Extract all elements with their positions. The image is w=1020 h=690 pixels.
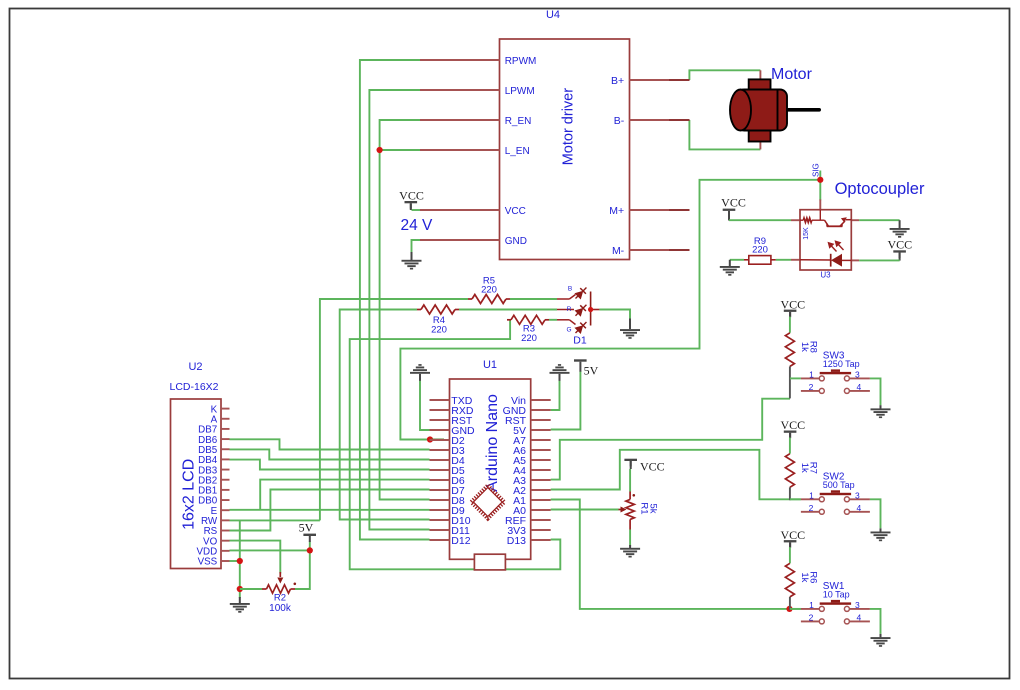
svg-text:VCC: VCC (780, 528, 805, 542)
node SIG junction (817, 177, 823, 183)
LED D1 red element (557, 309, 574, 311)
svg-text:Arduino Nano: Arduino Nano (484, 394, 501, 492)
switch SW1 body (820, 602, 851, 604)
wire GNDleft-ground (420, 380, 430, 430)
svg-text:16x2 LCD: 16x2 LCD (181, 459, 198, 530)
wire VCC24-pin (412, 209, 421, 211)
node D2 junction (427, 436, 433, 442)
U4 pin VCC (420, 209, 500, 211)
U1 pin A0 (531, 509, 551, 511)
wire pin3-ground SW2 (870, 499, 881, 528)
svg-text:3: 3 (855, 370, 860, 380)
U2 pin DB0 (221, 499, 230, 501)
wire R3 right to LED G (549, 319, 557, 321)
wire VDD-5V (230, 549, 310, 551)
switch SW2 pin3 (849, 498, 870, 500)
svg-text:D1: D1 (573, 335, 587, 347)
wire R2 left lead (240, 588, 262, 590)
U2 pin RW (221, 519, 230, 521)
resistor R8 (785, 333, 794, 367)
U1 pin D7 (430, 489, 450, 491)
svg-text:3: 3 (855, 600, 860, 610)
wire VCC-R1 (629, 469, 631, 492)
wire opto bottom right to VCC (859, 259, 900, 261)
wire LPWM-D11 (369, 90, 429, 530)
U4 pin LPWM (420, 89, 500, 91)
U4 pin GND (420, 239, 500, 241)
U1 pin A1 (531, 499, 551, 501)
wire VSS tap (230, 560, 240, 562)
U2 pin DB5 (221, 448, 230, 450)
svg-text:5V: 5V (584, 364, 599, 378)
wire R7-switch column (789, 487, 791, 500)
svg-text:U4: U4 (546, 9, 560, 21)
U4 pin B- (630, 119, 690, 121)
svg-text:220: 220 (481, 285, 497, 296)
U1 pin 3V3 (531, 529, 551, 531)
svg-text:VCC: VCC (505, 206, 526, 217)
svg-text:D13: D13 (507, 535, 526, 547)
motor M1 (730, 79, 821, 141)
svg-text:2: 2 (809, 503, 814, 513)
switch SW3 pin3 (849, 377, 870, 379)
svg-text:LCD-16X2: LCD-16X2 (170, 381, 219, 393)
U1 pin D5 (430, 469, 450, 471)
svg-text:B-: B- (614, 115, 625, 127)
wire 5Vpin-symbol (551, 371, 581, 430)
svg-text:B+: B+ (611, 75, 624, 87)
node R2 left junction (237, 586, 243, 592)
U2 pin DB4 (221, 458, 230, 460)
wire REN-D8 (380, 120, 430, 500)
U1 pin A3 (531, 479, 551, 481)
U1 pin 5V (531, 429, 551, 431)
svg-text:220: 220 (752, 245, 768, 256)
wire RPWM-D12 (360, 60, 430, 540)
svg-text:R_EN: R_EN (505, 116, 532, 127)
U3 pin stub right top (851, 219, 859, 221)
U2 pin E (221, 509, 230, 511)
wire D2 olive overlap (432, 439, 445, 441)
U2 pin VSS (221, 560, 230, 562)
U3 pin stub right bottom (851, 259, 859, 261)
wire pin3-ground SW3 (870, 378, 881, 405)
wire column-pin1 SW1 (790, 608, 801, 610)
switch SW1 pin4 (849, 620, 870, 622)
U3 pin stub left bottom (791, 259, 800, 261)
U3 pin stub left (791, 219, 800, 221)
resistor R3 (507, 319, 511, 321)
svg-text:5k: 5k (648, 503, 659, 513)
wire VO to wiper (230, 541, 281, 574)
wire SIG-D2 net (400, 180, 820, 440)
U3 base line (812, 219, 825, 221)
U1 pin D8 (430, 499, 450, 501)
svg-text:R2: R2 (274, 593, 286, 604)
svg-text:GND: GND (505, 236, 527, 247)
wire opto top right to ground (859, 219, 900, 221)
svg-text:SIG: SIG (812, 163, 821, 177)
wire SIG stub drop (819, 171, 821, 201)
resistor R9 leads (744, 259, 749, 261)
U1 pin D2 (430, 439, 450, 441)
U1 bottom tab (474, 554, 505, 570)
U1 pin D3 (430, 449, 450, 451)
switch SW3 pin1 (801, 377, 819, 379)
svg-text:VCC: VCC (721, 196, 746, 210)
svg-text:R: R (567, 306, 572, 313)
U4 pin R_EN (420, 119, 500, 121)
U1 pin D4 (430, 459, 450, 461)
svg-text:U3: U3 (820, 271, 831, 280)
lcd U2 box (171, 399, 222, 569)
U1 pin D12 (430, 539, 450, 541)
wire VCC-R SW1 (789, 547, 791, 563)
svg-text:RPWM: RPWM (505, 56, 537, 67)
svg-text:Optocoupler: Optocoupler (835, 180, 925, 198)
U1 pin D6 (430, 479, 450, 481)
U1 pin A6 (531, 449, 551, 451)
svg-text:VCC: VCC (640, 460, 665, 474)
wire R4 right to LED R (459, 309, 557, 311)
U4 pin RPWM (420, 59, 500, 61)
svg-text:1k: 1k (799, 572, 810, 582)
wire RS-D7 (230, 490, 430, 531)
svg-text:Motor: Motor (771, 66, 813, 83)
svg-text:1k: 1k (799, 463, 810, 473)
U3 LED (831, 254, 842, 267)
resistor R6 (785, 563, 794, 597)
ground SW3 (880, 405, 882, 409)
svg-text:4: 4 (857, 503, 862, 513)
wire R8-switch column (789, 366, 791, 398)
svg-text:D12: D12 (451, 535, 470, 547)
U1 pin RXD (430, 409, 450, 411)
LED D1 common bar (590, 292, 592, 326)
svg-text:220: 220 (431, 325, 447, 336)
svg-text:VSS: VSS (198, 557, 218, 568)
ground 24V (411, 252, 413, 260)
motor driver U4 box (500, 39, 630, 260)
U1 pin TXD (430, 399, 450, 401)
wire VCC-R SW2 (789, 438, 791, 454)
potentiometer R1 (629, 492, 631, 500)
wire DB4-D5 (230, 460, 430, 470)
svg-text:Motor driver: Motor driver (561, 88, 577, 166)
ground R9 (729, 260, 731, 266)
node SW1 junction (786, 606, 792, 612)
U3 LED arrows (829, 241, 844, 251)
wire gnd to R9 (730, 259, 744, 261)
wire R1-ground (629, 530, 631, 547)
U1 pin A7 (531, 439, 551, 441)
U4 pin M- (630, 249, 690, 251)
node VSS junction (237, 558, 243, 564)
node L_EN junction (377, 147, 383, 153)
svg-text:2: 2 (809, 382, 814, 392)
svg-text:10 Tap: 10 Tap (823, 590, 850, 600)
U1 pin A5 (531, 459, 551, 461)
svg-text:3: 3 (855, 491, 860, 501)
U2 pin K (221, 408, 230, 410)
U1 pin A2 (531, 489, 551, 491)
wire LEN join (380, 149, 420, 151)
wire B- to motor (689, 120, 760, 149)
resistor R4 (417, 309, 421, 311)
svg-text:100k: 100k (269, 603, 292, 614)
arduino U1 box (450, 379, 531, 559)
wire A2-SW2 (551, 450, 801, 500)
svg-text:2: 2 (809, 613, 814, 623)
wire E-D9 (230, 509, 430, 511)
switch SW1 pin2 (801, 620, 819, 622)
U4 pin B+ (630, 79, 690, 81)
U1 pin REF (531, 519, 551, 521)
ground above U1 right (550, 364, 570, 374)
svg-text:VCC: VCC (780, 297, 805, 311)
switch SW3 pin2 (801, 390, 819, 392)
U2 pin DB1 (221, 489, 230, 491)
wire A3-SW3 (551, 399, 790, 480)
switch SW1 pin1 (801, 608, 819, 610)
svg-text:1k: 1k (799, 342, 810, 352)
switch SW2 pin1 (801, 498, 819, 500)
wire RW-VSS-ground branch (239, 520, 241, 598)
svg-text:24 V: 24 V (401, 217, 434, 234)
svg-text:15K: 15K (803, 227, 810, 240)
resistor R7 (785, 454, 794, 488)
wire R5 right to LED B (510, 298, 557, 300)
wire A1-SW1 (551, 500, 801, 609)
switch SW1 pin3 (849, 608, 870, 610)
wire VCC-R SW3 (789, 317, 791, 333)
svg-text:1: 1 (809, 370, 814, 380)
svg-text:220: 220 (521, 333, 537, 344)
resistor R5 (468, 298, 472, 300)
wire DB6-D3 (230, 439, 430, 449)
U3 internal resistor (800, 219, 803, 221)
ground opto right (899, 220, 901, 228)
switch SW3 pin4 (849, 390, 870, 392)
U1 pin D11 (430, 529, 450, 531)
wire E-D6 branch (260, 480, 429, 510)
svg-text:1250 Tap: 1250 Tap (823, 359, 860, 369)
svg-text:4: 4 (857, 613, 862, 623)
svg-text:U1: U1 (483, 359, 497, 371)
LED D1 green element (557, 319, 569, 321)
wire GNDright-ground (551, 380, 560, 410)
R1 wiper arrow (619, 509, 622, 511)
svg-text:U2: U2 (188, 361, 202, 373)
svg-text:5V: 5V (299, 521, 314, 535)
wire D1 common to ground (599, 310, 630, 321)
wire column-pin1 SW2 (790, 498, 801, 500)
wire R5 left to bus (320, 299, 468, 520)
wire GND24-pin (412, 240, 421, 253)
U3 transistor (825, 220, 852, 227)
switch SW2 pin4 (849, 511, 870, 513)
U2 pin DB2 (221, 479, 230, 481)
resistor R9 (749, 256, 771, 265)
ground D1 (629, 319, 631, 330)
node D1 common (588, 307, 593, 312)
svg-text:1: 1 (809, 600, 814, 610)
switch SW2 body (820, 493, 851, 495)
svg-text:VCC: VCC (887, 238, 912, 252)
U2 pin DB7 (221, 428, 230, 430)
U2 pin RS (221, 530, 230, 532)
U2 pin DB3 (221, 469, 230, 471)
U2 pin A (221, 418, 230, 420)
LED D1 blue element (557, 298, 569, 300)
VCC symbol R1 (624, 459, 637, 467)
wire RW-R5bus (230, 519, 320, 521)
wire VCCleft-opto (729, 219, 791, 221)
U1 pin A4 (531, 469, 551, 471)
svg-text:M+: M+ (609, 205, 624, 217)
U1 pin D13 (531, 539, 551, 541)
switch SW2 pin2 (801, 511, 819, 513)
wire R3 left loop D13 (350, 320, 561, 570)
ground above U1 left (410, 364, 430, 374)
potentiometer R2 (262, 588, 267, 590)
svg-text:L_EN: L_EN (505, 146, 530, 157)
svg-text:B: B (568, 286, 572, 293)
U1 pin GND (531, 409, 551, 411)
U2 pin VDD (221, 550, 230, 552)
ground SW2 (880, 528, 882, 532)
wire R4 left to bus (340, 310, 430, 520)
svg-text:VCC: VCC (399, 189, 424, 203)
U3 pin stub top (819, 199, 821, 209)
svg-text:4: 4 (857, 382, 862, 392)
U2 pin DB6 (221, 438, 230, 440)
U1 pin D9 (430, 509, 450, 511)
switch SW3 body (820, 372, 851, 374)
wire B+ to motor (689, 70, 760, 80)
5V symbol U1 (574, 359, 587, 361)
U1 pin D10 (430, 519, 450, 521)
U2 pin VO (221, 540, 230, 542)
wire pin3-ground SW1 (870, 609, 881, 634)
wire column-pin1 SW3 (790, 377, 801, 379)
wire R6-switch column (789, 597, 791, 610)
U4 pin L_EN (420, 149, 500, 151)
U1 pin RST (430, 419, 450, 421)
wire DB5-D4 (230, 449, 430, 459)
wire R2 right riser (295, 542, 310, 590)
motor pin stubs (759, 70, 761, 80)
U1 chip diamond (471, 485, 504, 518)
wire A0-R1 (551, 509, 619, 511)
optocoupler U3 box (800, 210, 851, 270)
svg-text:500 Tap: 500 Tap (823, 480, 855, 490)
svg-text:M-: M- (612, 245, 625, 257)
node VDD junction (307, 547, 313, 553)
svg-text:G: G (566, 327, 571, 334)
U4 pin M+ (630, 209, 690, 211)
svg-text:LPWM: LPWM (505, 86, 535, 97)
ground R1 (629, 545, 631, 548)
U1 pin GND (430, 429, 450, 431)
svg-text:VCC: VCC (780, 418, 805, 432)
wire R9 to opto (776, 259, 791, 261)
R2 wiper arrow (279, 572, 281, 577)
svg-text:1: 1 (809, 491, 814, 501)
ground R2 (239, 597, 241, 604)
U1 pin Vin (531, 399, 551, 401)
U1 pin RST (531, 419, 551, 421)
ground SW1 (880, 634, 882, 638)
